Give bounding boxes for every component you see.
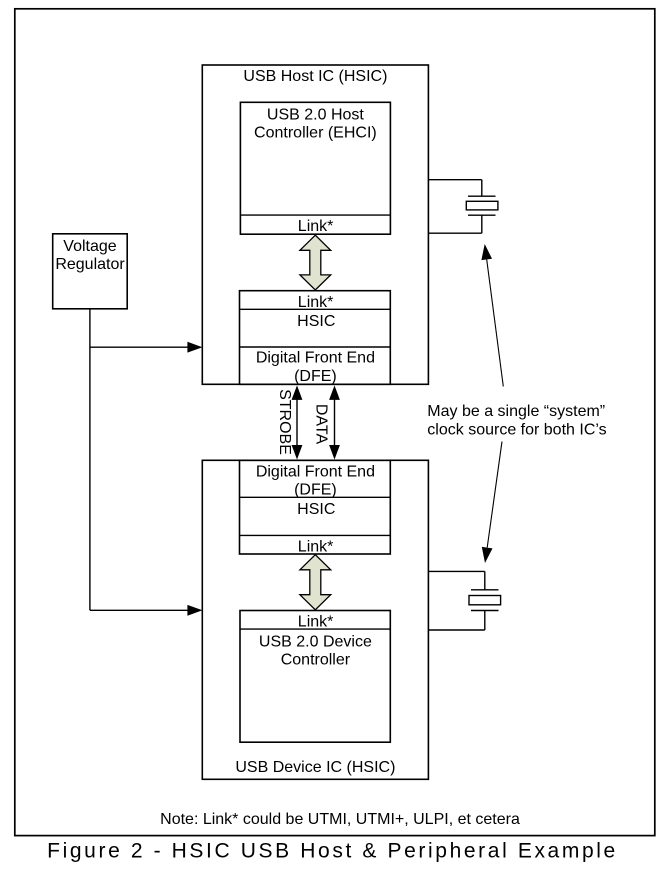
svg-text:Link*: Link* [298, 294, 334, 311]
svg-text:Link*: Link* [298, 539, 334, 556]
svg-text:(DFE): (DFE) [294, 368, 337, 385]
wire: STROBE signal (double arrow) [292, 385, 303, 459]
box: USB 2.0 Device Controller with Link* row [240, 611, 390, 743]
svg-text:Regulator: Regulator [55, 256, 125, 273]
wire: DATA signal (double arrow) [329, 385, 340, 459]
svg-text:DATA: DATA [312, 404, 329, 445]
svg-text:HSIC: HSIC [297, 313, 335, 330]
svg-text:USB 2.0 Host: USB 2.0 Host [267, 106, 364, 123]
block arrow: host Link interconnect [300, 235, 331, 290]
box U2: USB Device IC (HSIC) [202, 460, 428, 779]
box: USB 2.0 Host Controller (EHCI) with Link* row [240, 102, 390, 235]
svg-text:Controller (EHCI): Controller (EHCI) [254, 124, 377, 141]
box: device PHY (Digital Front End / HSIC / Link*) [240, 460, 391, 555]
svg-text:Link*: Link* [298, 218, 334, 235]
svg-text:USB Host IC (HSIC): USB Host IC (HSIC) [243, 68, 387, 85]
svg-text:USB 2.0 Device: USB 2.0 Device [259, 633, 372, 650]
svg-text:Link*: Link* [298, 613, 334, 630]
wire: voltage regulator output (vertical) [89, 309, 91, 611]
box U1: USB Host IC (HSIC) [202, 65, 428, 384]
block arrow: device Link interconnect [300, 555, 331, 610]
svg-text:STROBE: STROBE [276, 389, 293, 455]
box: Voltage Regulator [53, 234, 128, 309]
note: clock source annotation [427, 403, 606, 439]
annotation arrow: to crystal Y1 [481, 244, 503, 386]
svg-text:Digital Front End: Digital Front End [256, 350, 375, 367]
wire: power branch to host IC [90, 342, 202, 353]
svg-text:Figure 2 - HSIC USB Host & Per: Figure 2 - HSIC USB Host & Peripheral Ex… [47, 840, 618, 863]
crystal Y1: host system clock [428, 180, 498, 234]
annotation arrow: to crystal Y2 [482, 442, 502, 564]
crystal Y2: device system clock [428, 571, 500, 630]
svg-text:USB Device IC (HSIC): USB Device IC (HSIC) [235, 759, 395, 776]
wire: power branch to device IC [90, 605, 202, 616]
box: host PHY (Link* / HSIC / Digital Front End) [240, 291, 391, 385]
svg-text:Digital Front End: Digital Front End [256, 463, 375, 480]
svg-text:Voltage: Voltage [63, 238, 116, 255]
svg-text:(DFE): (DFE) [294, 482, 337, 499]
svg-text:May be a single “system”: May be a single “system” [427, 403, 605, 420]
svg-text:Controller: Controller [281, 651, 351, 668]
svg-text:clock source for both IC’s: clock source for both IC’s [427, 422, 606, 439]
svg-text:HSIC: HSIC [297, 501, 335, 518]
svg-text:Note: Link* could be UTMI, UTM: Note: Link* could be UTMI, UTMI+, ULPI, … [160, 811, 520, 828]
